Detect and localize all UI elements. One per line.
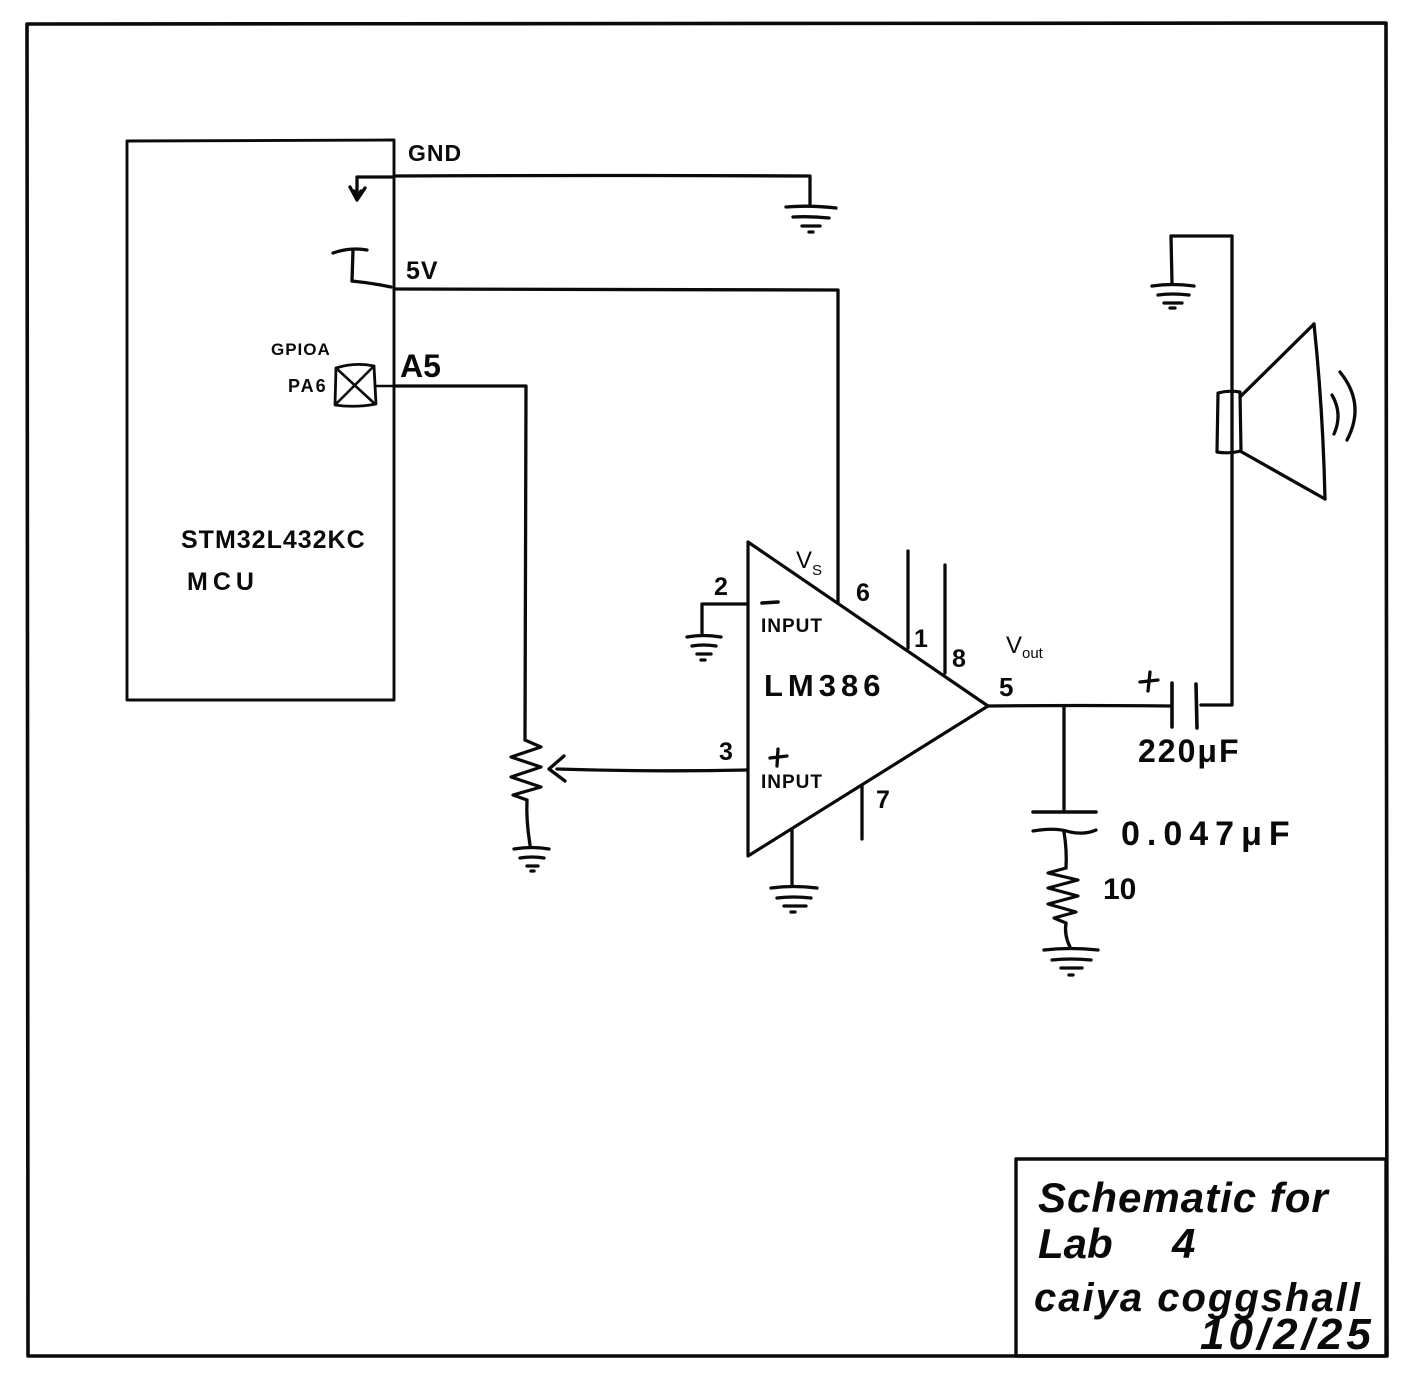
wire 5V to pin 6 bbox=[394, 289, 838, 603]
svg-text:INPUT: INPUT bbox=[761, 616, 823, 637]
wire op-amp ground pin 4 bbox=[790, 829, 793, 885]
wire output node Vout bbox=[988, 704, 1171, 708]
plus input sign bbox=[770, 749, 787, 766]
capacitor C2 0.047uF plates bbox=[1033, 812, 1096, 833]
svg-text:2: 2 bbox=[714, 573, 728, 601]
potentiometer R1 bbox=[511, 740, 541, 800]
wire junction to C2 bbox=[1062, 706, 1065, 812]
ground (op-amp) bbox=[771, 887, 817, 913]
svg-text:STM32L432KC: STM32L432KC bbox=[181, 526, 366, 554]
svg-text:PA6: PA6 bbox=[288, 376, 328, 396]
wire potentiometer to ground bbox=[527, 800, 530, 845]
svg-text:10/2/25: 10/2/25 bbox=[1200, 1310, 1375, 1359]
wire speaker top to ground bbox=[1171, 236, 1232, 283]
MCU U1 STM32L432KC box bbox=[127, 140, 394, 700]
svg-text:5: 5 bbox=[999, 672, 1013, 702]
svg-text:8: 8 bbox=[952, 645, 966, 673]
minus input sign bbox=[762, 602, 778, 603]
op-amp U2 LM386 triangle bbox=[748, 542, 988, 856]
svg-text:GPIOA: GPIOA bbox=[271, 340, 331, 359]
svg-text:LM386: LM386 bbox=[764, 668, 885, 703]
title block box bbox=[1016, 1159, 1386, 1356]
speaker LS1 bbox=[1217, 236, 1325, 499]
svg-text:V: V bbox=[796, 547, 812, 574]
svg-text:Schematic for: Schematic for bbox=[1038, 1174, 1330, 1221]
svg-text:Lab: Lab bbox=[1038, 1220, 1113, 1267]
svg-text:MCU: MCU bbox=[187, 568, 259, 596]
pin 1 wire bbox=[906, 551, 909, 648]
svg-text:6: 6 bbox=[856, 579, 870, 607]
wire C2 to R2 bbox=[1064, 832, 1066, 868]
capacitor C1 220uF plates bbox=[1172, 683, 1197, 728]
speaker wire through driver bbox=[1231, 452, 1233, 705]
ground (potentiometer) bbox=[514, 848, 549, 872]
svg-text:0.047μF: 0.047μF bbox=[1121, 815, 1297, 853]
ground (pin 2) bbox=[687, 636, 721, 661]
svg-text:S: S bbox=[812, 562, 822, 579]
svg-text:1: 1 bbox=[914, 625, 928, 653]
label Vs bbox=[796, 547, 822, 579]
ground (GND net) bbox=[786, 206, 836, 232]
pin 7 wire bbox=[860, 786, 863, 839]
wire pin 2 to ground bbox=[702, 604, 748, 633]
wiper arrow to pin 3 bbox=[549, 756, 747, 781]
svg-text:A5: A5 bbox=[400, 348, 441, 384]
svg-text:out: out bbox=[1022, 645, 1044, 662]
pin 8 wire bbox=[943, 565, 946, 673]
wire C1 to speaker bbox=[1201, 236, 1232, 705]
GND pin arrow symbol bbox=[350, 177, 392, 200]
wire R2 to ground bbox=[1066, 923, 1071, 947]
svg-text:3: 3 bbox=[719, 738, 733, 766]
svg-text:5V: 5V bbox=[406, 257, 439, 285]
svg-text:INPUT: INPUT bbox=[761, 772, 823, 793]
svg-text:220μF: 220μF bbox=[1138, 733, 1241, 769]
wire GND net bbox=[394, 176, 810, 205]
svg-text:4: 4 bbox=[1171, 1220, 1195, 1267]
svg-text:10: 10 bbox=[1103, 873, 1136, 906]
ground (speaker) bbox=[1152, 285, 1194, 309]
GPIO pin crossed box PA6 bbox=[335, 364, 394, 406]
resistor R2 bbox=[1048, 868, 1078, 923]
svg-text:V: V bbox=[1006, 632, 1022, 659]
ground (R2) bbox=[1044, 949, 1098, 976]
wire A5 to potentiometer bbox=[394, 386, 526, 740]
label Vout bbox=[1006, 632, 1044, 662]
svg-text:7: 7 bbox=[876, 786, 890, 814]
plus sign (C1 polarity) bbox=[1140, 672, 1158, 691]
sound waves bbox=[1332, 372, 1355, 440]
svg-text:GND: GND bbox=[408, 140, 462, 166]
5V pin symbol bbox=[333, 249, 391, 287]
